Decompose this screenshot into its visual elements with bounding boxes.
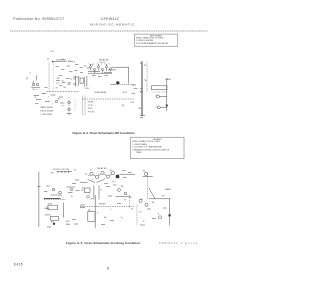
svg-text:RELAY: RELAY [99, 202, 106, 205]
svg-text:BAKE: BAKE [165, 188, 171, 191]
svg-text:6: 6 [107, 267, 109, 271]
svg-text:MOT: MOT [66, 221, 71, 223]
svg-text:DOOR LOCK SW: DOOR LOCK SW [53, 169, 69, 171]
svg-text:W: W [82, 187, 84, 189]
svg-text:EOC: EOC [123, 92, 128, 94]
svg-text:OVEN RELAY: OVEN RELAY [94, 91, 107, 94]
svg-text:6: 6 [109, 64, 110, 66]
svg-text:2500W: 2500W [45, 214, 51, 216]
svg-text:E435: E435 [14, 262, 23, 266]
svg-text:W: W [35, 97, 37, 99]
svg-text:P2: P2 [47, 59, 49, 61]
svg-text:DLB: DLB [85, 88, 90, 90]
svg-text:W: W [74, 170, 76, 172]
svg-text:2 COOKING TOP TEMPERATURE: 2 COOKING TOP TEMPERATURE [132, 146, 162, 149]
svg-text:2: 2 [98, 174, 99, 176]
svg-text:3: 3 [97, 64, 98, 66]
svg-text:W: W [62, 81, 64, 83]
svg-text:P2: P2 [85, 174, 87, 176]
svg-text:W: W [74, 79, 76, 81]
svg-text:Publication No. 5995510717: Publication No. 5995510717 [13, 17, 64, 21]
svg-text:P6 BK: P6 BK [88, 102, 94, 104]
svg-text:CONV 400W: CONV 400W [41, 114, 53, 116]
svg-text:8: 8 [74, 61, 75, 63]
svg-text:WIRE CONNECTION OF OVEN: WIRE CONNECTION OF OVEN [132, 141, 160, 143]
svg-text:BROIL 3600W: BROIL 3600W [41, 111, 54, 113]
svg-text:BAKE: BAKE [166, 78, 172, 81]
svg-text:P8: P8 [162, 195, 164, 197]
svg-text:BAKE 2500W: BAKE 2500W [41, 106, 53, 109]
svg-text:Figure G-4. Oven Schematic-Of: Figure G-4. Oven Schematic-Off Condition [72, 131, 134, 135]
svg-text:W: W [130, 197, 132, 199]
svg-text:CPEW442_2 wiring: CPEW442_2 wiring [159, 241, 198, 245]
svg-text:5: 5 [105, 64, 106, 66]
svg-text:CPEW442: CPEW442 [101, 17, 119, 21]
svg-text:P7 W: P7 W [88, 105, 93, 107]
svg-text:FAN: FAN [66, 223, 70, 226]
svg-text:Figure G-5. Oven Schematic-Co: Figure G-5. Oven Schematic-Cooking Condi… [66, 241, 140, 245]
svg-text:1: 1 [89, 64, 90, 66]
svg-text:W: W [131, 208, 133, 210]
svg-text:RELAY BD: RELAY BD [99, 58, 109, 61]
svg-text:BAKE: BAKE [45, 207, 51, 210]
svg-text:3: 3 [104, 178, 105, 180]
svg-text:4: 4 [110, 172, 111, 174]
svg-text:2 DOOR APPEARANCE ON DISPLAY: 2 DOOR APPEARANCE ON DISPLAY [136, 42, 169, 45]
svg-text:4: 4 [101, 64, 102, 66]
svg-text:3 VARIABLE DISPLAY CONTROL: 3 VARIABLE DISPLAY CONTROL SWITCH [132, 148, 169, 151]
svg-text:P7: P7 [124, 200, 126, 202]
svg-text:1: 1 [92, 179, 93, 181]
svg-text:1 OVEN IS BAKE: 1 OVEN IS BAKE [132, 143, 148, 146]
svg-text:2: 2 [93, 64, 94, 66]
svg-text:RELAY BD: RELAY BD [97, 167, 107, 170]
svg-text:P9 OR: P9 OR [88, 111, 95, 113]
svg-text:P8 R: P8 R [88, 108, 93, 110]
svg-text:TIMER: TIMER [136, 152, 143, 154]
svg-text:WIRING-SC-HEMATIC: WIRING-SC-HEMATIC [90, 22, 135, 26]
